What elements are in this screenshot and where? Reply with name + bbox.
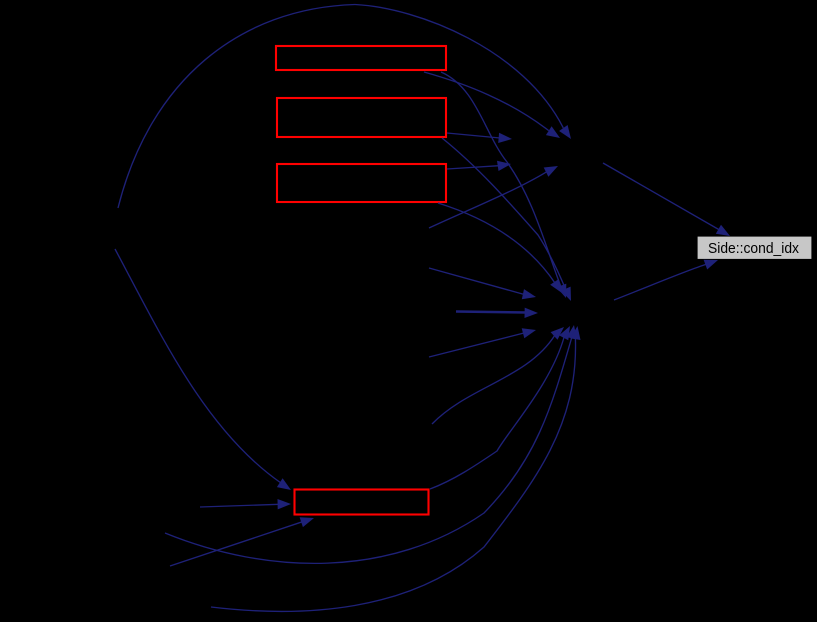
- svg-text:Side::cond_idx: Side::cond_idx: [708, 241, 800, 257]
